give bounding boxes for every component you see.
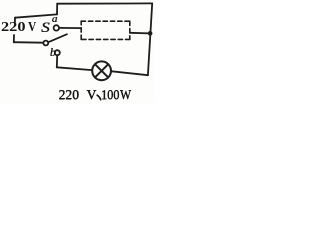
wire: bottom-left from b-contact drop to lamp — [57, 67, 92, 70]
switch S: blade (open, pointing between contacts) — [48, 34, 67, 42]
wire: left rail upper stub — [14, 18, 16, 23]
switch S: contact a circle — [54, 25, 59, 30]
switch S: contact b circle — [55, 50, 60, 55]
appliance box (dashed rectangle) — [81, 21, 130, 39]
label: lamp rating 220 V, 100 W — [59, 88, 79, 102]
label: contact b — [50, 45, 56, 60]
wire: left rail lower stub — [13, 35, 15, 42]
wire: top rail — [57, 2, 152, 4]
wire: contact a to dashed appliance box — [59, 27, 80, 29]
wire: dashed box to right rail junction — [130, 32, 150, 35]
label: contact a — [52, 13, 58, 25]
wire: step vertical up — [56, 4, 58, 15]
wire: right rail down — [148, 3, 152, 75]
label: switch S — [41, 20, 50, 37]
wire: top-left horizontal from source top terminal to step — [15, 14, 57, 17]
label: 220 V mains source — [1, 20, 21, 33]
wire: bottom-right from rail corner to lamp — [111, 71, 148, 75]
node: junction of box branch with right rail — [148, 31, 153, 36]
switch S: pivot circle on source wire — [43, 41, 48, 46]
wire: vertical drop from contact b — [56, 56, 58, 68]
wire: source bottom terminal to switch pivot — [14, 41, 44, 44]
lamp EL (circle with X), rated 220 V 100 W — [92, 61, 111, 80]
